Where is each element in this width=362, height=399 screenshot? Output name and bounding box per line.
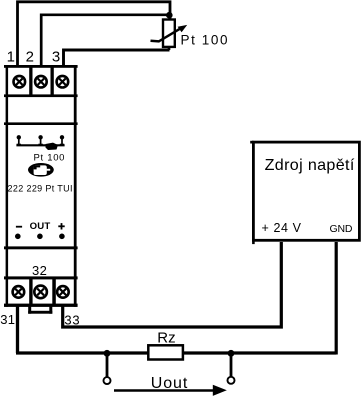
wire bottom bus [16,351,336,354]
wire terminal1-to-sensor-top [18,2,171,66]
svg-text:Pt 100: Pt 100 [34,153,66,164]
screw terminal 3 [57,76,69,88]
screw terminal 1 [13,76,25,88]
output terminal circle right [228,377,235,384]
separator top block 2|3 [51,67,54,95]
RTD symbol pin lead 3 [61,137,63,145]
svg-text:33: 33 [64,312,80,327]
arrow Uout direction [114,389,215,392]
RTD symbol pin dot 1 [17,135,21,139]
svg-text:2: 2 [26,48,34,65]
junction dot right output [228,350,235,357]
RTD symbol pin lead 2 [40,137,42,145]
module bottom bar [4,304,78,307]
RTD symbol pin foot 1 [17,144,21,146]
svg-text:3: 3 [52,48,60,65]
terminal 32 tab left wall [28,307,31,314]
RTD symbol element blob [46,143,59,150]
svg-text:222 229 Pt TUI: 222 229 Pt TUI [8,183,73,193]
wire sensor-to-terminal3 [64,50,170,66]
resistor Pt100 sensor body [163,20,175,47]
resistor Rz [148,345,183,359]
OUT dot minus [15,234,21,240]
svg-text:Pt 100: Pt 100 [181,33,230,48]
module top bar [4,65,78,68]
junction dot sensor top node [166,12,173,19]
svg-text:Zdroj napětí: Zdroj napětí [265,156,355,174]
logo ellipse [28,163,54,177]
arrow across Pt100 sensor [151,28,181,41]
wire terminal2-to-sensor [41,15,169,66]
module outline left edge [6,65,9,307]
wire output stub left [106,353,109,377]
svg-text:GND: GND [330,223,353,235]
screw terminal 31 [13,286,25,298]
wire GND down [335,242,338,355]
wire terminal31 down [16,305,19,353]
svg-text:31: 31 [0,312,15,327]
screw terminal 33 [57,286,69,298]
junction dot left output [104,350,111,357]
terminal 32 tab bottom [28,311,52,314]
wire output stub right [230,353,233,377]
screw terminal 32 [34,286,47,299]
RTD symbol pin dot 2 [38,135,42,139]
svg-text:Rz: Rz [157,329,175,346]
svg-text:+ 24 V: + 24 V [262,221,302,235]
label plus [58,225,64,227]
wire sensor-bottom stub [168,47,171,50]
module bar body bottom [4,246,78,249]
separator top block 1|2 [29,67,32,95]
label minus [16,226,22,228]
terminal 32 tab right wall [49,307,52,314]
separator lower block 32|33 [52,279,56,304]
module bar lower-block top [4,276,78,279]
box Zdroj napeti (voltage source) [253,142,359,240]
RTD symbol pin foot 3 [60,144,64,146]
module bar terminal-block bottom [4,94,78,97]
separator lower block 31|32 [29,279,32,304]
module outline right edge [74,65,77,307]
module bar body top [4,122,78,125]
RTD symbol pin lead 1 [18,137,20,145]
RTD symbol pin dot 3 [60,135,64,139]
wire terminal33 to +24V [63,242,282,327]
OUT dot plus [59,234,65,240]
screw terminal 2 [35,76,47,88]
svg-text:OUT: OUT [30,221,51,232]
output terminal circle left [104,377,111,384]
svg-text:32: 32 [32,263,47,278]
OUT dot mid [37,234,43,240]
svg-text:1: 1 [7,48,15,65]
RTD symbol pin foot 2 [38,144,42,146]
RTD symbol bus line [16,144,64,146]
